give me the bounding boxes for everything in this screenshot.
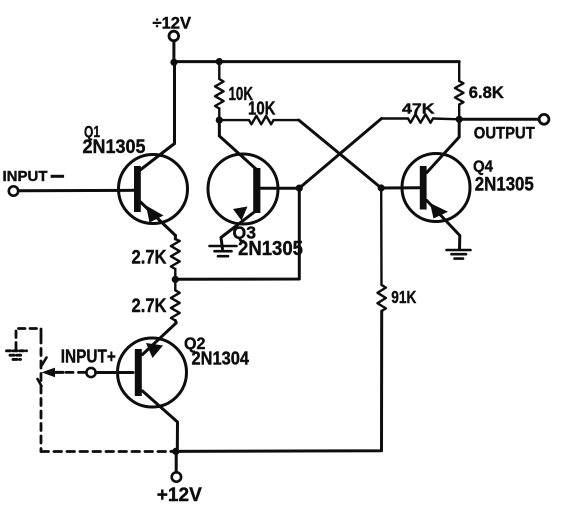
wire shield dashed bottom <box>41 450 171 453</box>
wire cross-couple Q3 base to 47K <box>299 119 381 189</box>
node G (2.7K junction) <box>172 276 179 283</box>
svg-text:÷12V: ÷12V <box>153 15 192 33</box>
terminal INPUT+ <box>86 368 95 377</box>
resistor R6 2.7K (lower) <box>171 279 180 320</box>
wire Q3 collector riser <box>218 120 221 136</box>
terminal OUTPUT <box>539 114 549 124</box>
svg-text:OUTPUT: OUTPUT <box>474 124 535 142</box>
svg-text:47K: 47K <box>402 100 435 117</box>
svg-text:Q4: Q4 <box>473 159 493 176</box>
wire bottom rail <box>171 311 382 451</box>
ground (Q4 emitter) <box>447 250 471 259</box>
ground (shield, dashed) <box>7 351 27 360</box>
resistor R3 47K <box>382 114 460 122</box>
terminal INPUT- <box>9 186 18 195</box>
wire shield dashed vertical <box>40 336 43 452</box>
wire -12V stem <box>172 41 175 63</box>
resistor R1 10K (vertical) <box>215 62 224 121</box>
ground (Q3 emitter) <box>210 246 237 256</box>
transistor Q4 2N1305 <box>381 119 470 249</box>
node A (top rail left) <box>170 59 177 66</box>
wire Q3 base node drop <box>175 188 299 279</box>
wiper arrow to shield <box>38 358 64 387</box>
wire dashed wiper lead <box>66 371 86 374</box>
resistor R5 2.7K (upper) <box>171 239 180 279</box>
terminal +12V <box>172 472 181 481</box>
svg-text:91K: 91K <box>391 287 416 307</box>
node C (10K junction) <box>216 117 223 124</box>
svg-text:2N1305: 2N1305 <box>238 238 303 260</box>
svg-text:+12V: +12V <box>157 485 202 506</box>
resistor R7 91K <box>378 188 386 311</box>
wire output lead <box>459 118 538 121</box>
node B (top rail / 10K) <box>216 58 223 65</box>
transistor Q2 2N1304 <box>96 321 187 452</box>
resistor R4 6.8K <box>455 62 464 120</box>
svg-text:INPUT+: INPUT+ <box>61 347 116 367</box>
svg-text:2N1305: 2N1305 <box>475 175 534 196</box>
node E (Q3 base node) <box>296 185 303 192</box>
transistor Q3 2N1305 <box>208 136 299 249</box>
svg-text:2N1304: 2N1304 <box>192 349 250 369</box>
terminal -12V <box>169 31 179 41</box>
svg-text:2.7K: 2.7K <box>132 296 167 317</box>
transistor Q1 2N1305 <box>119 144 188 240</box>
resistor R2 10K (horizontal) <box>219 116 298 124</box>
svg-text:2N1305: 2N1305 <box>83 137 146 158</box>
svg-text:2.7K: 2.7K <box>132 247 167 268</box>
node F (output node) <box>456 116 463 123</box>
wire Q1 base lead <box>18 189 134 193</box>
svg-text:10K: 10K <box>248 98 276 119</box>
node H (bottom rail junction) <box>172 448 179 455</box>
wire top rail <box>174 60 459 63</box>
wire +12V stem <box>175 451 178 472</box>
svg-text:INPUT: INPUT <box>3 169 48 185</box>
wire cross-couple 10K to Q4 base <box>299 120 381 188</box>
wire Q1 collector riser <box>173 62 176 143</box>
svg-text:6.8K: 6.8K <box>469 84 504 102</box>
node D (Q4 base node) <box>378 184 385 191</box>
wire shield dashed enclosure top <box>16 329 41 350</box>
